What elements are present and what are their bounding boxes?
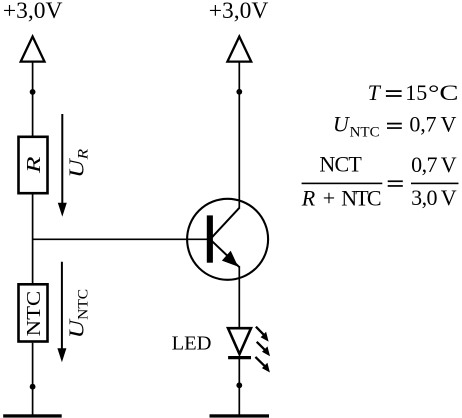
transistor Q1 (NPN) — [187, 199, 268, 280]
svg-text:U: U — [333, 111, 351, 136]
svg-text:UNTC: UNTC — [65, 289, 92, 339]
wire: right supply to collector — [238, 62, 240, 209]
equation NCT/(R+NTC) = 0,7V/3,0V : numerator NCT — [319, 152, 362, 177]
equation fraction bar (right) — [411, 183, 459, 185]
svg-text:+3,0V: +3,0V — [209, 0, 269, 24]
svg-text:T: T — [368, 80, 382, 105]
power supply symbol (left, up-pointing triangle) — [21, 37, 45, 62]
svg-text:R: R — [301, 185, 316, 210]
wire: left supply to resistor — [32, 62, 34, 136]
svg-text:0,7 V: 0,7 V — [409, 111, 456, 136]
svg-text:+: + — [323, 185, 335, 210]
voltage arrow U_NTC — [57, 262, 66, 363]
equation equals sign — [388, 180, 403, 186]
thermistor NTC (box) — [19, 284, 48, 341]
svg-text:°C: °C — [428, 80, 459, 105]
voltage arrow U_R — [58, 114, 67, 217]
LED light arrow 3 — [255, 357, 270, 373]
wire: NTC to ground — [32, 343, 34, 416]
svg-text:LED: LED — [172, 333, 212, 355]
net label +3,0V (right supply) — [209, 0, 269, 24]
svg-text:NTC: NTC — [341, 185, 381, 210]
ground (right) — [210, 414, 270, 417]
wire: LED to ground — [238, 358, 240, 416]
equation denominator 3,0 V — [411, 185, 457, 210]
svg-text:NTC: NTC — [350, 125, 380, 141]
annotation U_NTC = 0,7 V — [333, 111, 457, 140]
svg-text:+3,0V: +3,0V — [3, 0, 63, 24]
label R (rotated) — [23, 157, 45, 175]
equation denominator R + NTC — [301, 185, 382, 210]
junction dot (left rail bottom) — [30, 384, 36, 390]
equation fraction bar (left) — [302, 183, 383, 185]
ground (left) — [3, 414, 62, 417]
wire: resistor to NTC — [32, 195, 34, 284]
power supply symbol (right, up-pointing triangle) — [227, 37, 251, 62]
label U_NTC (rotated) — [65, 289, 92, 339]
equation numerator 0,7 V — [411, 152, 457, 177]
net label +3,0V (left supply) — [3, 0, 63, 24]
svg-text:NCT: NCT — [319, 152, 362, 177]
label LED — [172, 333, 212, 355]
resistor R (box) — [19, 137, 48, 193]
svg-text:NTC: NTC — [23, 291, 45, 337]
wire: base wire to transistor — [33, 238, 210, 240]
junction dot (right rail) — [236, 89, 242, 95]
label NTC (rotated) — [23, 291, 45, 337]
junction dot (LED cathode) — [236, 382, 242, 388]
svg-text:UR: UR — [65, 149, 92, 178]
label U_R (rotated) — [65, 149, 92, 178]
svg-text:15: 15 — [405, 80, 427, 105]
wire: emitter to LED — [238, 266, 240, 327]
annotation T = 15 °C — [368, 80, 459, 105]
svg-text:R: R — [23, 157, 45, 175]
LED light arrow 2 — [257, 342, 270, 356]
svg-text:3,0 V: 3,0 V — [411, 185, 457, 210]
LED light arrow 1 — [256, 327, 269, 342]
LED D1 (diode triangle + cathode bar) — [228, 328, 251, 357]
svg-text:0,7 V: 0,7 V — [411, 152, 457, 177]
junction dot (left rail top) — [30, 89, 36, 95]
